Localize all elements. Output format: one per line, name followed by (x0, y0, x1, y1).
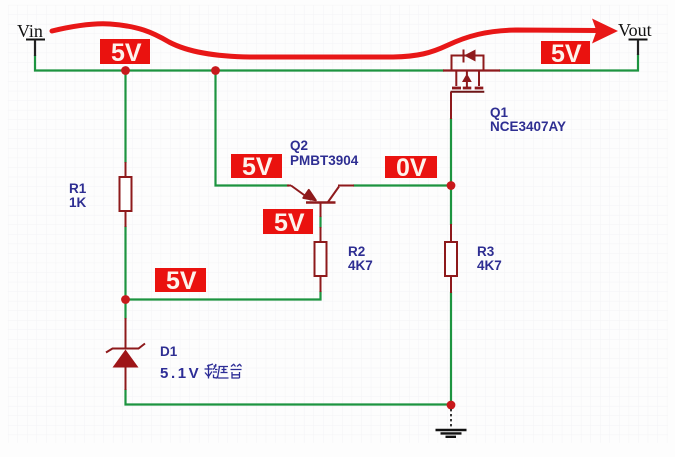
svg-text:4K7: 4K7 (477, 258, 502, 273)
wire mid node to D1 (124, 300, 126, 319)
wire Q1 gate to node (450, 118, 452, 186)
junction dot top rail / Q2 branch (211, 66, 220, 75)
resistor R1 (120, 162, 132, 227)
voltage label 0V at gate node (385, 154, 437, 182)
label Q2 (290, 138, 359, 168)
junction dot mid node at D1 (121, 295, 130, 304)
transistor Q2 (287, 186, 354, 218)
wire top rail to R1 (124, 71, 126, 164)
svg-text:5V: 5V (111, 39, 142, 67)
svg-text:R1: R1 (69, 181, 87, 196)
label R2 (348, 244, 373, 273)
diode D1 (zener) (106, 318, 145, 390)
svg-text:D1: D1 (160, 344, 178, 359)
voltage label 5V at Vout (541, 40, 590, 68)
svg-text:5V: 5V (551, 40, 582, 68)
voltage label 5V at mid node (155, 267, 206, 295)
svg-text:Q1: Q1 (490, 105, 509, 120)
svg-text:R2: R2 (348, 244, 365, 259)
junction dot gate node (447, 181, 456, 190)
svg-text:Vout: Vout (618, 20, 652, 40)
resistor R2 (315, 227, 327, 292)
wire D1 to bottom rail (126, 389, 452, 405)
wire node to R3 (450, 186, 452, 226)
svg-text:1K: 1K (69, 195, 87, 210)
resistor R3 (445, 224, 457, 293)
wire R1 to mid node (124, 226, 126, 300)
voltage label 5V at Q2 emitter (231, 153, 282, 181)
wire Q2 base green segment (319, 216, 321, 228)
wire from top rail down to Q2 emitter (216, 71, 290, 186)
wire top rail from Vin to Q1 (35, 55, 444, 71)
svg-text:Vin: Vin (17, 21, 43, 41)
wire R3 to ground node (450, 292, 452, 406)
label R1 (69, 181, 87, 210)
svg-text:4K7: 4K7 (348, 258, 373, 273)
wire Q1 drain to Vout (499, 54, 638, 71)
junction dot ground node (447, 401, 456, 410)
junction dot top rail / R1 (121, 66, 130, 75)
port Vin (17, 21, 45, 56)
svg-text:5V: 5V (274, 209, 305, 237)
voltage label 5V at Q2 base (263, 209, 313, 237)
transistor Q1 (P-MOSFET) (443, 50, 500, 120)
svg-text:5V: 5V (166, 267, 197, 295)
voltage label 5V at Vin rail (100, 39, 150, 67)
label R3 (477, 244, 502, 273)
svg-text:5.1V: 5.1V (160, 365, 201, 382)
svg-text:0V: 0V (396, 154, 427, 182)
svg-text:PMBT3904: PMBT3904 (290, 153, 359, 168)
label Q1 (490, 105, 566, 134)
ground (436, 409, 467, 437)
port Vout (618, 20, 652, 55)
svg-text:R3: R3 (477, 244, 495, 259)
wire R2 bottom to mid node (126, 291, 321, 300)
svg-text:NCE3407AY: NCE3407AY (490, 119, 566, 134)
annotation arrow 5V flow (52, 19, 618, 58)
svg-text:5V: 5V (242, 153, 273, 181)
label D1 chinese 稳压管 (205, 364, 242, 379)
wire Q2 collector to node at R3 top (353, 184, 451, 186)
svg-text:Q2: Q2 (290, 138, 308, 153)
label D1 (160, 344, 201, 382)
